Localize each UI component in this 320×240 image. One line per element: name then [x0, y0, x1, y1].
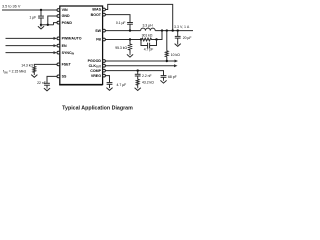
svg-text:20 µF: 20 µF [183, 36, 192, 40]
node COUT junction [177, 29, 179, 31]
svg-text:GND: GND [62, 14, 70, 18]
capacitor CBOOT 0.1uF [116, 21, 133, 31]
svg-text:VIN: VIN [62, 8, 68, 12]
svg-text:301 kΩ: 301 kΩ [142, 33, 153, 37]
capacitor CIN 1uF [29, 10, 44, 25]
ground CSS [46, 87, 48, 90]
node RPG bottom junction [166, 60, 168, 62]
wire RFBT to rise [153, 31, 163, 40]
pin PWM/AUTO [57, 37, 60, 40]
capacitor COUT 20uF [175, 31, 192, 41]
svg-text:VREG: VREG [91, 74, 101, 78]
node tie junction [47, 24, 49, 26]
pin PGOOD [103, 60, 106, 63]
wire FSET [34, 64, 57, 66]
wire BIAS to VOUT [105, 4, 173, 30]
capacitor CVREG 4.7uF [107, 83, 127, 87]
ground CHF [163, 80, 165, 81]
node CFF left junction [140, 38, 142, 40]
node CFF right junction [155, 38, 157, 40]
svg-text:COMP: COMP [90, 69, 101, 73]
pin SW [103, 29, 106, 32]
ground RFBB [129, 54, 131, 55]
capacitor CHF 68pF [161, 75, 177, 80]
pin SYNC_IN [57, 51, 60, 54]
ground CVREG [109, 87, 111, 88]
wire PGOOD [105, 60, 175, 62]
ground CIN [40, 25, 42, 27]
wire SYNC_IN input [6, 52, 55, 54]
wire GND-PGND tie [48, 16, 57, 25]
node VIN supply rail wire [2, 9, 57, 11]
pin BOOT [103, 13, 106, 16]
resistor RPG 10k pull-up [165, 31, 180, 61]
svg-text:FSET: FSET [62, 63, 72, 67]
svg-text:3.5 to 36 V: 3.5 to 36 V [2, 4, 21, 8]
resistor RFBB 95.3k [115, 40, 131, 54]
node BOOT cap junction [129, 29, 131, 31]
pin CLKOUT [103, 64, 106, 67]
svg-text:PWM/AUTO: PWM/AUTO [62, 37, 82, 41]
capacitor CFF 4.7pF parallel branch [141, 40, 157, 52]
wire SS [47, 76, 57, 83]
svg-text:PGND: PGND [62, 21, 73, 25]
capacitor CCOMP 2.2nF [135, 71, 152, 80]
svg-text:SW: SW [95, 29, 101, 33]
svg-text:3.3 V, 1 A: 3.3 V, 1 A [174, 25, 190, 29]
resistor RT 14.3k [33, 66, 36, 74]
pin SS [57, 75, 60, 78]
pin FB [103, 38, 106, 41]
node CIN bottom junction [40, 24, 42, 26]
ground COUT [177, 41, 179, 45]
pin VIN [57, 9, 60, 12]
node CIN junction [40, 9, 42, 11]
resistor RFBT 301k [141, 33, 153, 41]
wire IC bottom edge emphasis [59, 84, 102, 86]
svg-text:FB: FB [96, 38, 101, 42]
svg-text:Typical Application Diagram: Typical Application Diagram [62, 106, 133, 112]
pin COMP [103, 69, 106, 72]
wire SW / output rail [105, 30, 140, 32]
svg-text:BOOT: BOOT [91, 13, 102, 17]
node FB divider junction [161, 29, 163, 31]
svg-text:68 pF: 68 pF [168, 75, 177, 79]
node RFBB junction [129, 38, 131, 40]
svg-text:14.3 kΩ: 14.3 kΩ [21, 63, 33, 67]
svg-text:1 µF: 1 µF [29, 16, 36, 20]
svg-text:95.3 kΩ: 95.3 kΩ [115, 46, 127, 50]
ground RCOMP [137, 87, 139, 88]
pin EN [57, 44, 60, 47]
pin FSET [57, 63, 60, 66]
wire FB [105, 39, 141, 41]
svg-text:4.7 pF: 4.7 pF [144, 48, 154, 52]
svg-text:BIAS: BIAS [92, 8, 101, 12]
svg-text:PGOOD: PGOOD [88, 59, 102, 63]
wire EN input [6, 45, 55, 47]
svg-text:2.2 nF: 2.2 nF [142, 74, 152, 78]
wire COMP [105, 71, 163, 76]
svg-text:22 nF: 22 nF [37, 81, 46, 85]
ground RT [33, 73, 35, 76]
pin GND [57, 15, 60, 18]
wire inductor to output end [155, 30, 193, 32]
pin PGND [57, 21, 60, 24]
svg-text:EN: EN [62, 44, 67, 48]
pin BIAS [103, 8, 106, 11]
node COMP RC junction [137, 69, 139, 71]
capacitor CSS 22nF [37, 81, 50, 88]
wire VREG [105, 76, 109, 83]
resistor RCOMP 43.2k [136, 79, 154, 87]
wire CLKOUT [105, 65, 175, 67]
node RPG junction [166, 29, 168, 31]
inductor L1 3.3uH [141, 28, 156, 30]
wire BOOT [105, 15, 130, 23]
pin VREG [103, 74, 106, 77]
svg-text:3.3 µH: 3.3 µH [142, 24, 153, 28]
svg-text:4.7 µF: 4.7 µF [117, 83, 127, 87]
wire PWM/AUTO input [6, 37, 55, 39]
wire CIN to GND/PGND tie [41, 24, 54, 26]
IC U1 buck regulator body [60, 6, 103, 85]
svg-text:10 kΩ: 10 kΩ [171, 53, 180, 57]
svg-text:SS: SS [62, 75, 67, 79]
svg-text:0.1 µF: 0.1 µF [116, 21, 126, 25]
node BIAS junction [172, 29, 174, 31]
svg-text:43.2 kΩ: 43.2 kΩ [142, 81, 154, 85]
